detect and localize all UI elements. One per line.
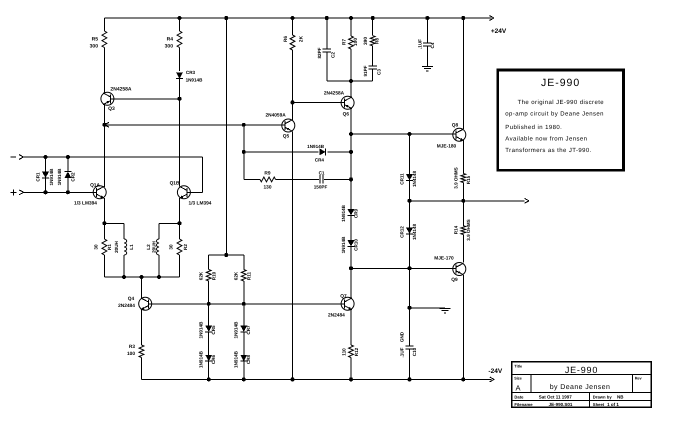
svg-text:CR12: CR12 bbox=[399, 226, 404, 238]
resistor R4 bbox=[177, 18, 182, 71]
junction dots on -24V rail bbox=[207, 377, 466, 381]
svg-text:R1: R1 bbox=[107, 244, 112, 250]
wire Q7 emitter to R12 bbox=[350, 310, 352, 345]
svg-text:MJE-180: MJE-180 bbox=[437, 144, 457, 150]
transistor Q1B 1/3 LM394 bbox=[177, 186, 190, 199]
svg-text:1/3 LM394: 1/3 LM394 bbox=[74, 201, 97, 207]
svg-text:Available now from Jensen: Available now from Jensen bbox=[505, 136, 587, 143]
wire tail to Q4 collector bbox=[141, 277, 143, 298]
svg-text:Title: Title bbox=[514, 364, 522, 368]
svg-text:150PF: 150PF bbox=[314, 184, 328, 189]
label Q5 bbox=[265, 113, 289, 140]
svg-text:CR4: CR4 bbox=[315, 158, 325, 163]
wire non-inverting input line bbox=[24, 191, 97, 193]
svg-text:Size: Size bbox=[514, 376, 522, 380]
svg-text:Q1A: Q1A bbox=[90, 183, 100, 189]
node CR12/Q9-base junction bbox=[408, 266, 412, 270]
diode CR5 1N914B bbox=[205, 304, 212, 355]
svg-text:Q9: Q9 bbox=[451, 277, 458, 283]
svg-text:30: 30 bbox=[94, 244, 99, 250]
label CR9 bbox=[341, 204, 359, 222]
node bias line junctions bbox=[207, 302, 246, 306]
wire Q1A emitter bbox=[103, 198, 105, 223]
svg-text:Q1B: Q1B bbox=[170, 180, 180, 186]
svg-text:82PF: 82PF bbox=[317, 47, 322, 58]
svg-text:A: A bbox=[516, 384, 521, 393]
wire to Q8 base bbox=[351, 133, 456, 135]
node output terminal arrow bbox=[525, 198, 530, 203]
svg-text:R12: R12 bbox=[354, 347, 359, 356]
wire Q3 base to R4/CR3 junction bbox=[111, 98, 180, 100]
node R9/C1 line junction bbox=[349, 177, 353, 181]
svg-text:1N914B: 1N914B bbox=[307, 144, 325, 149]
svg-text:1N914B: 1N914B bbox=[57, 168, 62, 186]
svg-text:Q7: Q7 bbox=[340, 293, 347, 299]
resistor R15 3.9 OHMS bbox=[461, 174, 466, 201]
svg-text:R10: R10 bbox=[211, 271, 216, 280]
label Q1A bbox=[74, 183, 100, 207]
svg-text:.1UF: .1UF bbox=[417, 39, 422, 49]
label R11 62K bbox=[233, 271, 251, 280]
svg-text:1N914B: 1N914B bbox=[199, 321, 204, 339]
node Q6 collector junction on RC bar bbox=[349, 79, 353, 83]
resistor R3 100 bbox=[139, 345, 144, 379]
wire emitter network bottom bar / tail node bbox=[104, 275, 179, 279]
wire output line bbox=[410, 200, 525, 202]
wire Q8 collector to +24V rail bbox=[462, 18, 464, 129]
svg-text:C1: C1 bbox=[319, 170, 325, 175]
svg-text:Transformers as the JT-990.: Transformers as the JT-990. bbox=[505, 147, 591, 154]
node Q6-emitter/Q8-base junction bbox=[349, 132, 353, 136]
resistor R14 3.9 OHMS bbox=[461, 201, 466, 263]
label CR1 bbox=[36, 168, 54, 186]
svg-text:+24V: +24V bbox=[491, 28, 507, 35]
wire CR12 junction down to GND tap bbox=[409, 268, 411, 308]
svg-text:1N914B: 1N914B bbox=[341, 204, 346, 222]
label R14 3.9 OHMS bbox=[453, 219, 471, 240]
svg-text:JE-990: JE-990 bbox=[541, 77, 580, 89]
svg-text:C10: C10 bbox=[412, 347, 417, 356]
svg-text:2N2484: 2N2484 bbox=[328, 312, 345, 318]
title block Size label bbox=[514, 376, 522, 392]
svg-text:130: 130 bbox=[263, 184, 271, 190]
svg-text:Published in 1980.: Published in 1980. bbox=[505, 124, 562, 131]
svg-text:1N914B: 1N914B bbox=[199, 350, 204, 368]
svg-text:100: 100 bbox=[127, 351, 135, 357]
svg-text:Date: Date bbox=[514, 395, 524, 400]
wire -24V bottom rail bbox=[142, 378, 492, 380]
svg-text:62K: 62K bbox=[233, 271, 238, 280]
label R1 30 bbox=[94, 244, 112, 250]
label CR10 bbox=[341, 236, 359, 254]
label CR7 bbox=[234, 321, 252, 339]
label L2 20UH bbox=[146, 240, 157, 252]
label C4 .1UF bbox=[417, 39, 435, 49]
diode CR10 1N914B bbox=[348, 240, 355, 268]
svg-text:.1UF: .1UF bbox=[399, 347, 404, 357]
label Q3 bbox=[108, 87, 132, 112]
svg-text:R9: R9 bbox=[264, 170, 270, 176]
label Q9 bbox=[434, 256, 458, 284]
svg-text:L2: L2 bbox=[146, 244, 151, 250]
label R8 390 bbox=[363, 37, 381, 45]
resistor R8 390 and capacitor C3 91PF bbox=[351, 18, 377, 81]
svg-text:CR2: CR2 bbox=[71, 172, 76, 182]
label R10 62K bbox=[198, 271, 216, 280]
svg-text:R6: R6 bbox=[283, 36, 289, 42]
diode CR9 1N914B bbox=[348, 209, 355, 240]
label CR12 1N4148 bbox=[399, 224, 417, 241]
label Q8 bbox=[437, 122, 459, 149]
svg-text:Q3: Q3 bbox=[108, 106, 115, 112]
svg-text:1 of 1: 1 of 1 bbox=[607, 402, 619, 407]
svg-text:100: 100 bbox=[353, 38, 359, 46]
ground symbol at C4 bbox=[422, 66, 433, 71]
svg-text:Q8: Q8 bbox=[452, 122, 459, 128]
wire Q5 emitter to -24V rail bbox=[292, 131, 294, 379]
label R2 30 bbox=[169, 244, 189, 250]
node R6/Q5-collector/Q6-base junction bbox=[291, 100, 295, 104]
svg-text:CR9: CR9 bbox=[354, 208, 359, 218]
node Q1A emitter junction bbox=[102, 221, 124, 225]
svg-text:1/3 LM394: 1/3 LM394 bbox=[189, 201, 212, 207]
svg-text:CR3: CR3 bbox=[186, 70, 196, 75]
svg-text:MJE-170: MJE-170 bbox=[434, 256, 454, 262]
svg-text:1N914B: 1N914B bbox=[234, 321, 239, 339]
wire node A2 column bbox=[242, 123, 246, 180]
inductor L2 20UH bbox=[157, 223, 160, 277]
transistor Q4 2N2484 bbox=[139, 297, 152, 310]
svg-text:Drawn by: Drawn by bbox=[593, 395, 613, 400]
svg-text:Sheet: Sheet bbox=[593, 402, 605, 407]
input + terminal bbox=[11, 189, 24, 195]
title block frame bbox=[512, 362, 652, 408]
transistor Q6 2N4258A bbox=[341, 96, 354, 109]
svg-text:R3: R3 bbox=[129, 344, 135, 350]
wire to Q9 base bbox=[351, 267, 456, 269]
value label R4 300 bbox=[165, 37, 174, 50]
svg-text:Sat Oct 11 1997: Sat Oct 11 1997 bbox=[539, 395, 573, 400]
wire junction to Q6 base bbox=[293, 101, 345, 103]
svg-text:R8: R8 bbox=[375, 38, 381, 44]
label CR11 1N4148 bbox=[399, 171, 417, 188]
transistor Q8 MJE-180 bbox=[453, 128, 466, 141]
label CR8 bbox=[234, 350, 252, 368]
wire Q1A collector bbox=[103, 125, 105, 187]
title block Filename row bbox=[514, 402, 619, 407]
label R12 110 bbox=[341, 347, 359, 356]
inductor L1 20UH bbox=[124, 223, 127, 277]
svg-text:300: 300 bbox=[90, 44, 99, 50]
wire Q6 collector bbox=[350, 81, 352, 97]
svg-text:Q4: Q4 bbox=[128, 296, 135, 302]
svg-text:GND: GND bbox=[399, 331, 404, 342]
svg-text:1N4148: 1N4148 bbox=[412, 224, 417, 241]
resistor R12 110 bbox=[349, 345, 354, 379]
node GND tap junction bbox=[408, 306, 412, 310]
junction dots on +24V rail bbox=[178, 16, 466, 20]
svg-text:20UH: 20UH bbox=[114, 240, 119, 252]
svg-text:2K: 2K bbox=[298, 35, 304, 42]
label C1 150PF bbox=[314, 170, 328, 189]
svg-text:R2: R2 bbox=[183, 244, 188, 250]
label Q4 bbox=[118, 296, 135, 309]
capacitor C1 150PF bbox=[320, 175, 323, 183]
node Q7-collector/CR10/Q9-base junction bbox=[349, 266, 353, 270]
svg-text:2N2484: 2N2484 bbox=[118, 303, 135, 309]
node bias splitter bar bbox=[209, 253, 244, 257]
wire node A to Q5 base bbox=[104, 124, 284, 126]
label L1 20UH bbox=[114, 240, 134, 252]
svg-text:CR11: CR11 bbox=[399, 173, 404, 185]
svg-text:CR7: CR7 bbox=[246, 325, 251, 335]
diode CR4 1N914B bbox=[319, 148, 325, 155]
svg-text:JE-990.S01: JE-990.S01 bbox=[549, 402, 573, 407]
wire Q1B collector bbox=[179, 99, 181, 187]
wire Q3 emitter down to node A bbox=[103, 105, 105, 125]
wire Q7 collector bbox=[350, 268, 352, 298]
svg-text:390: 390 bbox=[363, 37, 369, 45]
svg-text:1N4148: 1N4148 bbox=[412, 171, 417, 188]
resistor R7 100 bbox=[349, 18, 354, 81]
svg-text:3.9 OHMS: 3.9 OHMS bbox=[466, 219, 471, 240]
value label R5 300 bbox=[90, 37, 99, 50]
wire Q8 emitter to R15 bbox=[462, 141, 464, 174]
wire R9/C1 line bbox=[244, 177, 351, 182]
svg-text:300: 300 bbox=[165, 44, 174, 50]
svg-text:91PF: 91PF bbox=[363, 65, 368, 76]
svg-text:R15: R15 bbox=[466, 175, 471, 184]
resistor R6 2K bbox=[290, 18, 295, 102]
svg-text:JE-990: JE-990 bbox=[565, 365, 598, 375]
wire Q6 emitter down bbox=[350, 109, 352, 212]
label C3 91PF bbox=[363, 65, 382, 76]
diode CR3 1N914B bbox=[176, 72, 183, 97]
svg-text:op-amp circuit by Deane Jensen: op-amp circuit by Deane Jensen bbox=[505, 110, 604, 117]
wire +24V top rail bbox=[104, 17, 491, 19]
node R4/CR3/Q3-base/Q1B-collector junction bbox=[178, 97, 182, 101]
capacitor C2 82PF bbox=[323, 18, 351, 81]
svg-text:L1: L1 bbox=[129, 244, 134, 250]
resistor R1 30 bbox=[102, 223, 107, 277]
svg-text:CR8: CR8 bbox=[246, 354, 251, 364]
resistor R5 bbox=[102, 18, 107, 93]
wire Q9 collector to -24V rail bbox=[462, 275, 464, 380]
label R6 2K bbox=[283, 35, 304, 42]
svg-text:2N4059A: 2N4059A bbox=[265, 113, 286, 119]
diode CR2 1N914B input clamp bbox=[64, 155, 71, 194]
diode CR6 1N914B bbox=[205, 355, 212, 380]
label Q6 bbox=[324, 91, 349, 118]
svg-text:CR5: CR5 bbox=[211, 325, 216, 335]
svg-text:1N914B: 1N914B bbox=[186, 78, 204, 83]
wire Q4 emitter to R3 bbox=[141, 310, 143, 345]
node Q1B emitter junction bbox=[159, 221, 181, 225]
svg-text:1N914B: 1N914B bbox=[234, 350, 239, 368]
wire Q1B emitter bbox=[179, 198, 181, 223]
wire CR11/CR12 column top bbox=[408, 132, 412, 174]
wire bias line Q4 base to Q7 base bbox=[149, 303, 344, 305]
svg-text:2N4258A: 2N4258A bbox=[324, 91, 345, 97]
diode CR12 1N4148 bbox=[406, 201, 413, 268]
svg-text:R7: R7 bbox=[341, 39, 347, 45]
svg-text:CR1: CR1 bbox=[36, 172, 41, 182]
svg-text:R4: R4 bbox=[167, 37, 174, 43]
label CR5 bbox=[199, 321, 217, 339]
svg-text:C3: C3 bbox=[376, 69, 381, 75]
label C10 .1UF GND bbox=[399, 331, 417, 357]
resistor R9 130 labels bbox=[263, 170, 271, 190]
wire bias string feed from +24V rail bbox=[225, 18, 227, 255]
label CR3 1N914B bbox=[186, 70, 204, 83]
label R7 100 bbox=[341, 38, 359, 46]
svg-text:110: 110 bbox=[341, 348, 346, 356]
transistor Q7 2N2484 bbox=[341, 297, 354, 310]
capacitor C10 .1UF bbox=[405, 308, 413, 380]
wire CR4 feedback line bbox=[244, 151, 351, 153]
svg-text:Q5: Q5 bbox=[283, 134, 290, 140]
title block Date row bbox=[514, 395, 624, 400]
transistor Q9 MJE-170 bbox=[453, 263, 466, 276]
transistor Q5 2N4059A bbox=[282, 119, 295, 132]
svg-text:Filename: Filename bbox=[514, 402, 533, 407]
diode CR8 1N914B bbox=[240, 355, 247, 380]
wire Q5 collector bbox=[292, 102, 294, 119]
svg-text:R11: R11 bbox=[246, 271, 251, 280]
svg-text:Q6: Q6 bbox=[343, 111, 350, 117]
svg-text:Rev: Rev bbox=[635, 376, 643, 380]
resistor R2 30 bbox=[177, 223, 182, 277]
capacitor C4 .1UF supply bypass bbox=[423, 18, 431, 66]
node output junction at CR11/CR12 bbox=[408, 199, 412, 203]
svg-text:1N914B: 1N914B bbox=[49, 168, 54, 186]
diode CR1 1N914B input clamp bbox=[42, 155, 49, 194]
label Q1B bbox=[170, 180, 212, 206]
svg-text:NB: NB bbox=[617, 395, 624, 400]
node +24V terminal arrow bbox=[490, 16, 495, 21]
svg-text:CR10: CR10 bbox=[354, 239, 359, 251]
resistor R10 62K bbox=[206, 255, 211, 304]
svg-text:62K: 62K bbox=[198, 271, 203, 280]
transistor Q1A 1/3 LM394 bbox=[93, 186, 106, 199]
svg-text:30: 30 bbox=[169, 244, 174, 250]
node CR4 line junction bbox=[242, 150, 353, 154]
svg-text:3.9 OHMS: 3.9 OHMS bbox=[453, 167, 458, 188]
resistor R11 62K bbox=[241, 255, 246, 304]
label CR2 bbox=[57, 168, 75, 186]
svg-text:C2: C2 bbox=[330, 52, 335, 58]
label CR6 bbox=[199, 350, 217, 368]
wire inverting input line bbox=[24, 157, 203, 192]
svg-text:-24V: -24V bbox=[488, 368, 502, 375]
wire to ground symbol bbox=[410, 307, 446, 309]
node output node at R15/R14 bbox=[461, 199, 465, 203]
svg-text:1N914B: 1N914B bbox=[341, 236, 346, 254]
diode CR7 1N914B bbox=[240, 304, 247, 355]
info box JE-990 note bbox=[498, 70, 624, 170]
label C2 82PF bbox=[317, 47, 336, 58]
label R15 3.9 OHMS bbox=[453, 167, 471, 188]
node -24V terminal arrow bbox=[490, 377, 495, 382]
svg-text:C4: C4 bbox=[430, 42, 435, 48]
label R3 100 bbox=[127, 344, 135, 357]
svg-text:20UH: 20UH bbox=[151, 240, 156, 252]
ground symbol bbox=[440, 308, 451, 313]
svg-text:The original JE-990 discrete: The original JE-990 discrete bbox=[518, 99, 605, 106]
svg-text:R5: R5 bbox=[92, 37, 99, 43]
node A junction Q3/Q1A/Q5-base bbox=[102, 122, 109, 127]
diode CR11 1N4148 bbox=[406, 174, 413, 201]
svg-text:R14: R14 bbox=[453, 225, 458, 234]
svg-text:CR6: CR6 bbox=[211, 354, 216, 364]
svg-text:by Deane Jensen: by Deane Jensen bbox=[550, 383, 610, 391]
label Q7 bbox=[328, 293, 347, 318]
input - terminal bbox=[11, 155, 24, 160]
transistor Q3 2N4258A bbox=[101, 92, 114, 105]
svg-text:2N4258A: 2N4258A bbox=[110, 87, 132, 93]
label CR4 1N914B bbox=[307, 144, 325, 162]
